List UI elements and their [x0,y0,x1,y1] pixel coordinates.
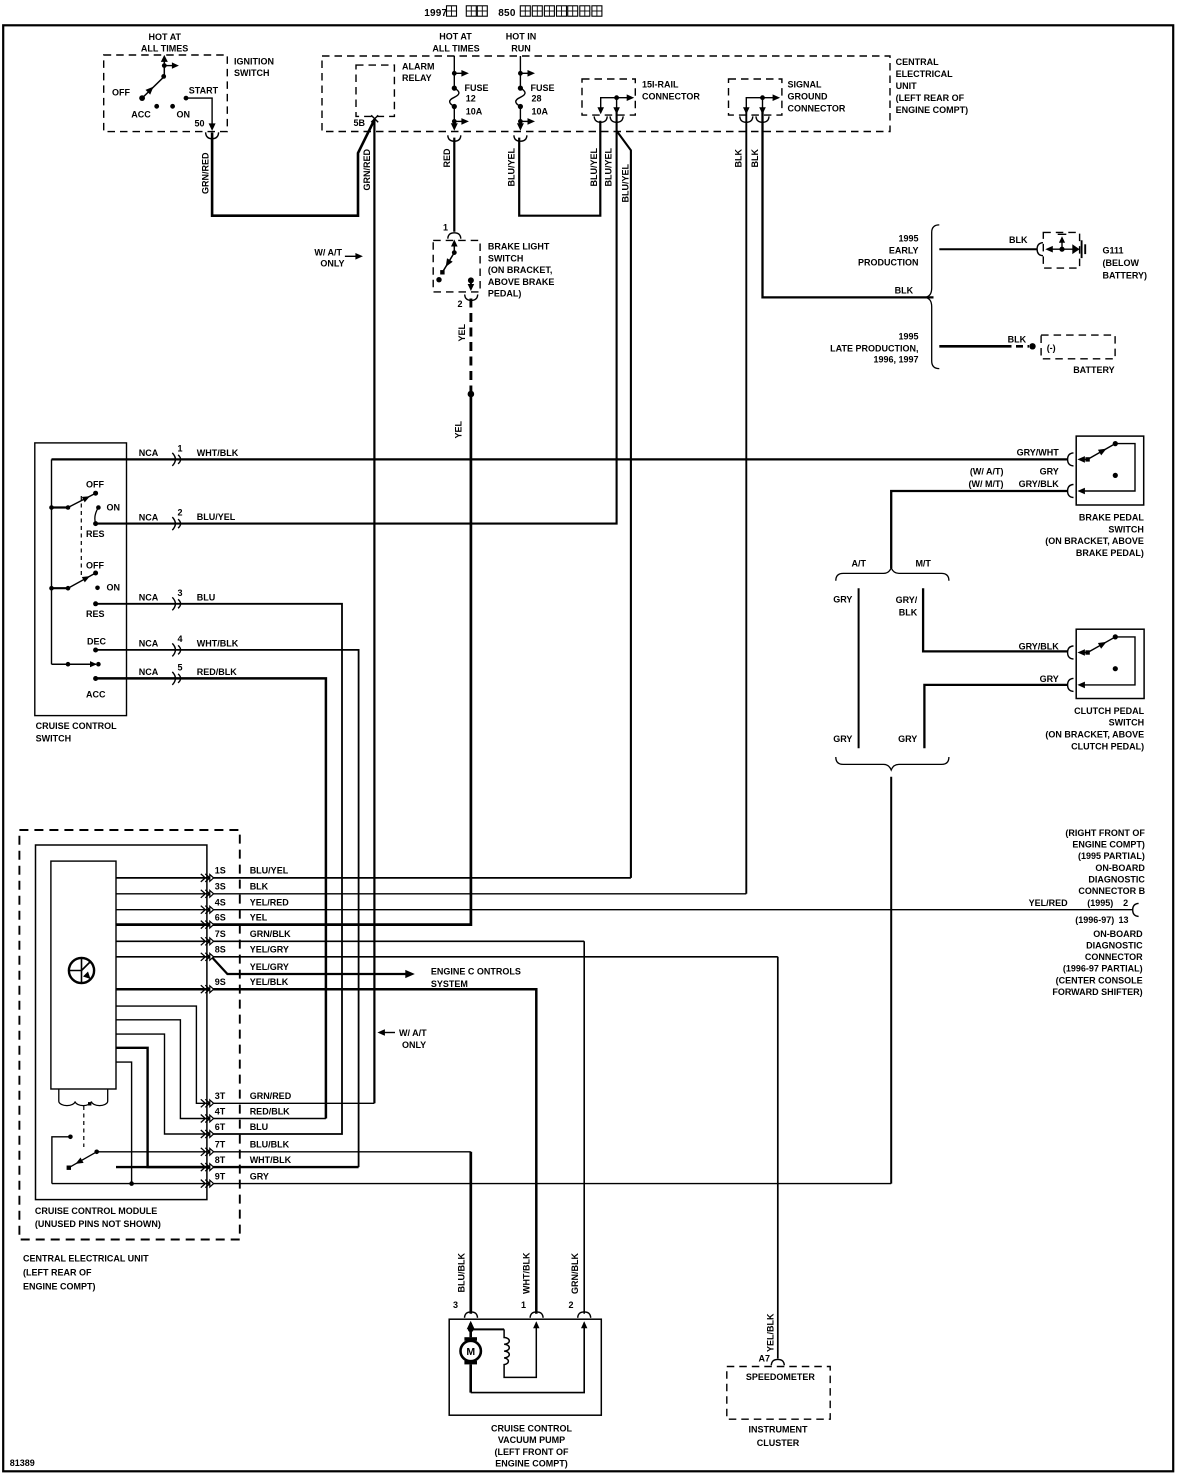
svg-text:OFF: OFF [112,88,130,98]
svg-text:(UNUSED PINS NOT SHOWN): (UNUSED PINS NOT SHOWN) [35,1219,161,1229]
svg-text:WHT/BLK: WHT/BLK [197,448,239,458]
svg-text:RED/BLK: RED/BLK [197,667,237,677]
svg-text:BLU/YEL: BLU/YEL [621,163,631,202]
svg-text:YEL/BLK: YEL/BLK [250,977,289,987]
svg-text:ENGINE COMPT): ENGINE COMPT) [495,1459,568,1469]
svg-text:RELAY: RELAY [402,73,432,83]
svg-text:BLU/YEL: BLU/YEL [197,512,236,522]
svg-text:28: 28 [532,94,542,104]
svg-text:YEL/GRY: YEL/GRY [250,945,289,955]
svg-text:RED: RED [442,148,452,168]
svg-text:CRUISE CONTROL: CRUISE CONTROL [36,721,118,731]
svg-text:BATTERY): BATTERY) [1103,271,1148,281]
svg-text:YEL: YEL [454,420,464,438]
svg-text:8S: 8S [215,945,226,955]
svg-text:IGNITION: IGNITION [234,57,274,67]
svg-text:A/T: A/T [852,559,867,569]
svg-text:OFF: OFF [86,479,104,489]
svg-text:CONNECTOR: CONNECTOR [642,92,700,102]
svg-text:4: 4 [178,634,183,644]
svg-text:(W/ M/T): (W/ M/T) [969,479,1004,489]
svg-text:CLUTCH PEDAL): CLUTCH PEDAL) [1071,741,1144,751]
svg-text:SIGNAL: SIGNAL [788,80,823,90]
svg-text:7T: 7T [215,1140,226,1150]
svg-text:ACC: ACC [86,689,106,699]
svg-text:WHT/BLK: WHT/BLK [522,1252,532,1294]
svg-text:ENGINE COMPT): ENGINE COMPT) [23,1282,96,1292]
svg-text:1: 1 [178,443,183,453]
svg-text:7S: 7S [215,929,226,939]
svg-text:10A: 10A [532,107,549,117]
svg-text:GRY: GRY [833,594,852,604]
svg-text:1: 1 [521,1300,526,1310]
svg-text:GRY: GRY [1040,467,1059,477]
svg-text:1S: 1S [215,866,226,876]
svg-text:3: 3 [178,588,183,598]
svg-text:BLU/BLK: BLU/BLK [250,1140,290,1150]
svg-text:SWITCH: SWITCH [234,68,270,78]
svg-text:HOT AT: HOT AT [149,32,182,42]
svg-text:RUN: RUN [511,44,531,54]
svg-text:DIAGNOSTIC: DIAGNOSTIC [1088,875,1145,885]
svg-text:BRAKE PEDAL): BRAKE PEDAL) [1076,548,1144,558]
svg-text:1995: 1995 [898,234,918,244]
svg-text:GRY: GRY [898,734,917,744]
svg-text:1996, 1997: 1996, 1997 [873,355,918,365]
svg-text:YEL: YEL [250,912,268,922]
svg-text:GRY: GRY [250,1171,269,1181]
svg-text:(1996-97): (1996-97) [1075,915,1114,925]
svg-text:GRY/WHT: GRY/WHT [1017,447,1060,457]
svg-text:BRAKE PEDAL: BRAKE PEDAL [1079,513,1145,523]
svg-text:2: 2 [178,508,183,518]
svg-text:2: 2 [1123,898,1128,908]
svg-text:PRODUCTION: PRODUCTION [858,258,919,268]
svg-text:13: 13 [1118,915,1128,925]
svg-text:GROUND: GROUND [788,92,828,102]
svg-text:12: 12 [466,94,476,104]
svg-text:ENGINE COMPT): ENGINE COMPT) [1072,840,1145,850]
svg-text:5: 5 [178,662,183,672]
svg-text:CONNECTOR: CONNECTOR [1085,952,1143,962]
svg-text:(-): (-) [1047,343,1056,353]
svg-text:ONLY: ONLY [320,259,344,269]
svg-text:(LEFT REAR OF: (LEFT REAR OF [896,93,965,103]
svg-text:GRY/BLK: GRY/BLK [1019,641,1060,651]
svg-text:(LEFT REAR OF: (LEFT REAR OF [23,1268,92,1278]
svg-text:GRY/BLK: GRY/BLK [1019,479,1060,489]
svg-text:SPEEDOMETER: SPEEDOMETER [746,1372,816,1382]
svg-text:CRUISE CONTROL MODULE: CRUISE CONTROL MODULE [35,1206,157,1216]
svg-text:BLK: BLK [1009,235,1028,245]
svg-text:(RIGHT FRONT OF: (RIGHT FRONT OF [1065,828,1145,838]
svg-text:850: 850 [498,8,516,19]
svg-text:ABOVE BRAKE: ABOVE BRAKE [488,277,555,287]
svg-text:2: 2 [458,299,463,309]
svg-text:50: 50 [195,119,205,129]
svg-text:15I-RAIL: 15I-RAIL [642,80,679,90]
svg-text:ELECTRICAL: ELECTRICAL [896,69,953,79]
svg-text:BLU/YEL: BLU/YEL [250,866,289,876]
svg-text:RES: RES [86,609,105,619]
svg-text:BRAKE LIGHT: BRAKE LIGHT [488,242,550,252]
svg-text:ENGINE C ONTROLS: ENGINE C ONTROLS [431,967,521,977]
svg-text:SWITCH: SWITCH [36,734,72,744]
svg-text:GRN/RED: GRN/RED [201,152,211,194]
svg-text:9S: 9S [215,977,226,987]
svg-text:8T: 8T [215,1155,226,1165]
svg-text:DEC: DEC [87,636,107,646]
svg-text:G111: G111 [1103,246,1124,256]
svg-text:OFF: OFF [86,560,104,570]
svg-text:CONNECTOR: CONNECTOR [788,104,846,114]
svg-text:ON: ON [177,110,191,120]
svg-text:CLUSTER: CLUSTER [757,1438,800,1448]
svg-text:FUSE: FUSE [465,83,489,93]
svg-text:(1996-97 PARTIAL): (1996-97 PARTIAL) [1063,964,1143,974]
svg-text:BLK: BLK [899,608,918,618]
svg-text:UNIT: UNIT [896,81,917,91]
svg-text:ALL TIMES: ALL TIMES [432,44,479,54]
svg-text:3S: 3S [215,882,226,892]
svg-text:SYSTEM: SYSTEM [431,979,468,989]
svg-text:LATE PRODUCTION,: LATE PRODUCTION, [830,344,918,354]
svg-text:4S: 4S [215,898,226,908]
svg-text:NCA: NCA [139,593,159,603]
svg-text:NCA: NCA [139,639,159,649]
svg-text:WHT/BLK: WHT/BLK [197,638,239,648]
svg-text:GRN/BLK: GRN/BLK [250,929,291,939]
svg-text:(ON BRACKET, ABOVE: (ON BRACKET, ABOVE [1045,536,1144,546]
svg-text:CONNECTOR B: CONNECTOR B [1078,886,1145,896]
svg-text:ON: ON [107,502,121,512]
svg-text:9T: 9T [215,1171,226,1181]
svg-text:(ON BRACKET,: (ON BRACKET, [488,265,553,275]
svg-text:CENTRAL ELECTRICAL UNIT: CENTRAL ELECTRICAL UNIT [23,1254,149,1264]
svg-text:ACC: ACC [131,110,151,120]
svg-text:SWITCH: SWITCH [488,253,524,263]
svg-text:M: M [466,1346,475,1358]
svg-text:(1995): (1995) [1087,898,1113,908]
svg-text:(1995 PARTIAL): (1995 PARTIAL) [1078,851,1145,861]
svg-text:GRN/RED: GRN/RED [362,148,372,190]
svg-text:1997: 1997 [424,8,447,19]
svg-text:INSTRUMENT: INSTRUMENT [749,1425,808,1435]
svg-text:(LEFT FRONT OF: (LEFT FRONT OF [495,1447,569,1457]
svg-text:EARLY: EARLY [889,246,919,256]
svg-text:RES: RES [86,529,105,539]
svg-text:HOT AT: HOT AT [439,32,472,42]
svg-text:FUSE: FUSE [531,83,555,93]
svg-text:YEL/BLK: YEL/BLK [766,1313,776,1352]
svg-text:DIAGNOSTIC: DIAGNOSTIC [1086,940,1143,950]
svg-text:6T: 6T [215,1122,226,1132]
svg-text:BLU: BLU [250,1122,269,1132]
svg-text:BLU/YEL: BLU/YEL [589,147,599,186]
svg-text:PEDAL): PEDAL) [488,289,522,299]
svg-text:10A: 10A [466,107,483,117]
svg-text:CENTRAL: CENTRAL [896,57,939,67]
svg-text:ALL TIMES: ALL TIMES [141,44,188,54]
svg-text:2: 2 [568,1300,573,1310]
svg-text:M/T: M/T [915,559,931,569]
svg-text:SWITCH: SWITCH [1109,718,1145,728]
svg-text:BLK: BLK [750,149,760,168]
svg-text:1995: 1995 [898,332,918,342]
svg-text:ENGINE COMPT): ENGINE COMPT) [896,105,969,115]
svg-text:ONLY: ONLY [402,1040,426,1050]
svg-text:GRY: GRY [833,734,852,744]
svg-text:W/ A/T: W/ A/T [314,248,342,258]
svg-text:BLU/YEL: BLU/YEL [604,147,614,186]
svg-text:NCA: NCA [139,667,159,677]
svg-text:FORWARD SHIFTER): FORWARD SHIFTER) [1052,987,1142,997]
svg-text:WHT/BLK: WHT/BLK [250,1155,292,1165]
svg-text:A7: A7 [759,1354,771,1364]
svg-text:6S: 6S [215,912,226,922]
svg-text:ON: ON [107,583,121,593]
svg-text:SWITCH: SWITCH [1108,524,1144,534]
svg-text:(CENTER CONSOLE: (CENTER CONSOLE [1056,975,1143,985]
svg-text:BLU/BLK: BLU/BLK [457,1253,467,1293]
svg-text:(ON BRACKET, ABOVE: (ON BRACKET, ABOVE [1045,730,1144,740]
svg-text:W/ A/T: W/ A/T [399,1028,427,1038]
svg-text:GRN/RED: GRN/RED [250,1091,292,1101]
svg-text:YEL/RED: YEL/RED [250,898,290,908]
svg-text:(BELOW: (BELOW [1103,258,1140,268]
svg-text:4T: 4T [215,1106,226,1116]
svg-text:(W/ A/T): (W/ A/T) [970,467,1004,477]
svg-text:5B: 5B [354,118,366,128]
svg-text:1: 1 [443,223,448,233]
svg-text:NCA: NCA [139,512,159,522]
svg-text:YEL/GRY: YEL/GRY [250,962,289,972]
svg-text:NCA: NCA [139,448,159,458]
svg-text:CLUTCH PEDAL: CLUTCH PEDAL [1074,706,1144,716]
svg-text:CRUISE CONTROL: CRUISE CONTROL [491,1424,573,1434]
svg-text:YEL/RED: YEL/RED [1029,898,1069,908]
svg-text:ON-BOARD: ON-BOARD [1093,929,1143,939]
svg-text:GRY/: GRY/ [896,595,918,605]
svg-text:START: START [189,86,219,96]
svg-text:GRY: GRY [1040,674,1059,684]
svg-text:81389: 81389 [10,1458,35,1468]
svg-text:BLK: BLK [734,149,744,168]
svg-text:3: 3 [453,1300,458,1310]
svg-text:3T: 3T [215,1091,226,1101]
svg-text:GRN/BLK: GRN/BLK [570,1253,580,1294]
svg-text:ON-BOARD: ON-BOARD [1095,863,1145,873]
svg-text:VACUUM PUMP: VACUUM PUMP [498,1435,565,1445]
svg-text:BATTERY: BATTERY [1073,365,1115,375]
svg-text:BLK: BLK [250,882,269,892]
svg-text:BLU/YEL: BLU/YEL [507,147,517,186]
svg-text:HOT IN: HOT IN [506,32,537,42]
svg-text:ALARM: ALARM [402,62,435,72]
svg-text:YEL: YEL [457,323,467,341]
svg-text:BLU: BLU [197,592,216,602]
svg-text:RED/BLK: RED/BLK [250,1106,290,1116]
svg-text:BLK: BLK [895,286,914,296]
svg-text:BLK: BLK [1008,335,1027,345]
